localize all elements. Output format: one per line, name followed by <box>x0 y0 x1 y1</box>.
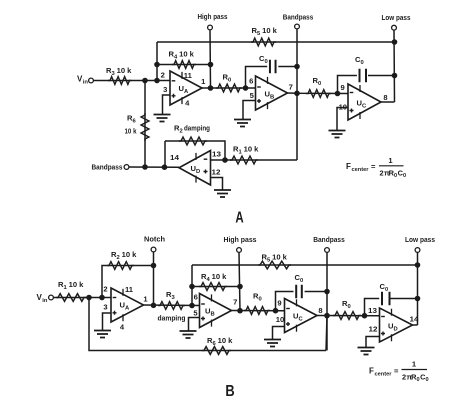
svg-text:9: 9 <box>340 83 344 92</box>
svg-text:D: D <box>196 169 200 175</box>
svg-text:F: F <box>369 367 374 376</box>
svg-text:11: 11 <box>125 285 134 294</box>
svg-text:0: 0 <box>361 60 364 66</box>
svg-text:B: B <box>225 383 234 400</box>
svg-text:1: 1 <box>239 149 243 155</box>
svg-text:4: 4 <box>120 323 125 332</box>
svg-text:=: = <box>394 367 399 376</box>
svg-text:12: 12 <box>369 325 378 334</box>
svg-text:6: 6 <box>133 118 137 124</box>
svg-text:10 k: 10 k <box>272 253 288 262</box>
svg-text:10 k: 10 k <box>69 280 85 289</box>
svg-text:0: 0 <box>265 59 268 65</box>
svg-text:13: 13 <box>368 306 377 315</box>
svg-text:B: B <box>270 94 274 100</box>
svg-text:10 k: 10 k <box>117 66 133 75</box>
svg-text:C: C <box>299 316 304 322</box>
svg-text:damping: damping <box>184 124 210 133</box>
svg-text:4: 4 <box>185 99 190 108</box>
svg-text:2: 2 <box>117 255 120 261</box>
svg-text:B: B <box>211 311 215 317</box>
svg-text:1: 1 <box>143 295 148 304</box>
svg-text:11: 11 <box>184 71 193 80</box>
svg-text:4: 4 <box>174 54 178 60</box>
svg-text:in: in <box>83 79 89 85</box>
svg-text:3: 3 <box>112 71 116 77</box>
svg-text:=: = <box>371 162 376 171</box>
svg-text:8: 8 <box>383 93 387 102</box>
svg-text:7: 7 <box>289 83 293 92</box>
svg-text:10 k: 10 k <box>244 145 260 154</box>
svg-text:A: A <box>235 210 244 227</box>
svg-text:3: 3 <box>163 85 167 94</box>
svg-text:Bandpass: Bandpass <box>313 235 345 244</box>
svg-text:9: 9 <box>277 299 281 308</box>
svg-text:A: A <box>184 89 189 95</box>
svg-text:High pass: High pass <box>224 235 257 244</box>
svg-text:10 k: 10 k <box>218 336 234 345</box>
svg-text:10 k: 10 k <box>212 272 228 281</box>
svg-text:4: 4 <box>207 277 211 283</box>
svg-text:5: 5 <box>193 309 198 318</box>
svg-text:1: 1 <box>388 156 393 165</box>
svg-text:2: 2 <box>180 128 183 134</box>
svg-text:in: in <box>42 298 48 304</box>
svg-text:2: 2 <box>161 71 165 80</box>
svg-text:1: 1 <box>201 77 206 86</box>
svg-text:10 k: 10 k <box>262 26 278 35</box>
svg-text:0: 0 <box>300 278 303 284</box>
svg-text:center: center <box>352 167 370 173</box>
svg-text:A: A <box>125 305 130 311</box>
svg-text:D: D <box>394 326 398 332</box>
svg-text:10 k: 10 k <box>122 250 138 259</box>
svg-text:0: 0 <box>318 81 321 87</box>
svg-text:3: 3 <box>103 303 107 312</box>
svg-text:Notch: Notch <box>144 235 165 244</box>
svg-text:6: 6 <box>213 341 217 347</box>
svg-text:10 k: 10 k <box>179 50 195 59</box>
svg-text:1: 1 <box>412 360 417 369</box>
svg-text:13: 13 <box>212 150 221 159</box>
svg-text:3: 3 <box>172 295 176 301</box>
svg-text:2: 2 <box>402 373 406 382</box>
svg-text:14: 14 <box>170 153 180 162</box>
svg-text:C: C <box>362 103 367 109</box>
svg-text:0: 0 <box>228 77 231 83</box>
svg-text:F: F <box>346 162 351 171</box>
svg-text:Bandpass: Bandpass <box>283 13 314 22</box>
svg-text:2: 2 <box>380 169 384 178</box>
svg-text:0: 0 <box>348 304 351 310</box>
svg-text:Bandpass: Bandpass <box>92 163 123 172</box>
svg-text:10 k: 10 k <box>125 127 138 136</box>
svg-text:10: 10 <box>276 315 284 324</box>
svg-text:0: 0 <box>426 377 429 383</box>
svg-text:High pass: High pass <box>198 12 228 21</box>
svg-text:6: 6 <box>249 77 253 86</box>
svg-text:0: 0 <box>259 296 262 302</box>
svg-text:Low pass: Low pass <box>405 235 435 244</box>
svg-text:5: 5 <box>257 31 261 37</box>
svg-text:1: 1 <box>64 285 68 291</box>
svg-text:6: 6 <box>194 293 198 302</box>
svg-text:0: 0 <box>385 287 388 293</box>
svg-text:damping: damping <box>158 314 186 323</box>
svg-text:5: 5 <box>250 91 255 100</box>
svg-text:12: 12 <box>212 168 221 177</box>
svg-text:center: center <box>375 372 393 378</box>
svg-text:14: 14 <box>410 315 420 324</box>
svg-text:7: 7 <box>233 298 237 307</box>
svg-text:5: 5 <box>267 257 271 263</box>
svg-text:Low pass: Low pass <box>382 13 411 22</box>
svg-text:2: 2 <box>103 285 107 294</box>
svg-text:0: 0 <box>403 173 406 179</box>
svg-text:8: 8 <box>318 306 322 315</box>
